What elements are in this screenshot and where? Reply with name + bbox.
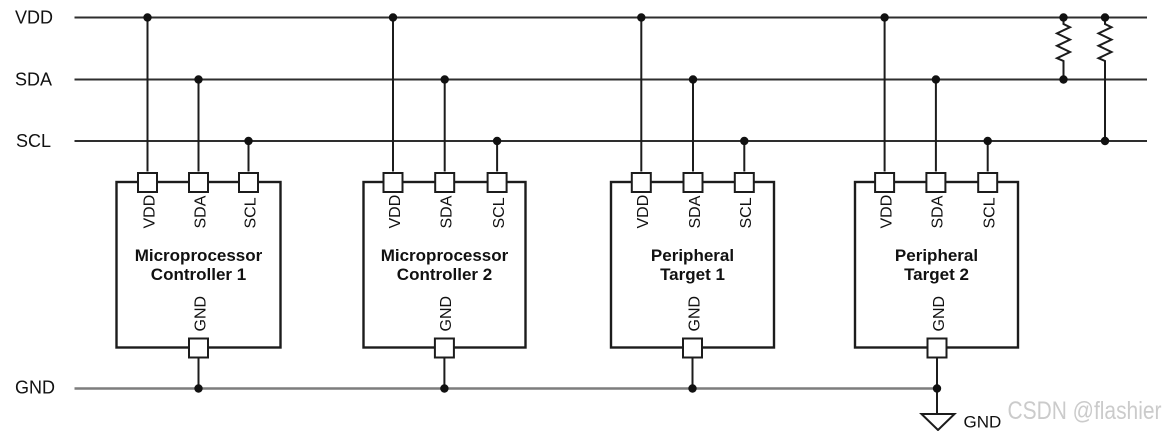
- svg-text:Controller 1: Controller 1: [151, 265, 246, 284]
- svg-text:SCL: SCL: [242, 197, 259, 228]
- svg-text:GND: GND: [964, 413, 1002, 431]
- svg-text:GND: GND: [15, 378, 55, 398]
- svg-text:VDD: VDD: [387, 195, 404, 229]
- svg-text:CSDN @flashier: CSDN @flashier: [1008, 397, 1162, 425]
- svg-text:SCL: SCL: [738, 197, 755, 228]
- svg-text:Microprocessor: Microprocessor: [135, 246, 263, 265]
- svg-text:GND: GND: [438, 296, 455, 332]
- svg-text:VDD: VDD: [15, 8, 53, 28]
- svg-text:Target 1: Target 1: [660, 265, 725, 284]
- svg-text:Target 2: Target 2: [904, 265, 969, 284]
- svg-text:SCL: SCL: [491, 197, 508, 228]
- svg-text:SDA: SDA: [192, 195, 209, 228]
- svg-text:SDA: SDA: [930, 195, 947, 228]
- svg-text:Controller 2: Controller 2: [397, 265, 492, 284]
- svg-text:GND: GND: [192, 296, 209, 332]
- svg-text:GND: GND: [686, 296, 703, 332]
- svg-text:Microprocessor: Microprocessor: [381, 246, 509, 265]
- svg-text:SDA: SDA: [687, 195, 704, 228]
- svg-text:Peripheral: Peripheral: [651, 246, 734, 265]
- svg-text:GND: GND: [931, 296, 948, 332]
- svg-text:SCL: SCL: [16, 131, 51, 151]
- svg-text:SCL: SCL: [982, 197, 999, 228]
- svg-text:VDD: VDD: [635, 195, 652, 229]
- svg-text:VDD: VDD: [878, 195, 895, 229]
- svg-text:VDD: VDD: [141, 195, 158, 229]
- svg-text:SDA: SDA: [15, 70, 52, 90]
- svg-text:Peripheral: Peripheral: [895, 246, 978, 265]
- svg-text:SDA: SDA: [439, 195, 456, 228]
